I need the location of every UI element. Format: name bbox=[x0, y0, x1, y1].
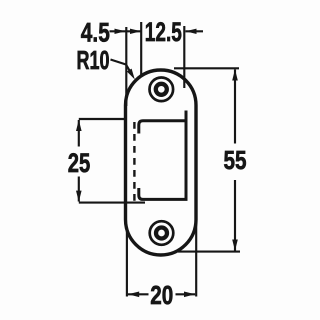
dimension 25 label bbox=[68, 148, 91, 178]
R10 leader line with arrowhead bbox=[111, 60, 135, 80]
dimension 20 left extension line bbox=[126, 228, 128, 297]
dimension 20 line with arrows bbox=[128, 292, 195, 298]
extension tick at plate left edge bbox=[125, 27, 127, 106]
radius callout R10 label bbox=[77, 47, 110, 75]
dimension 25 bottom extension line bbox=[79, 202, 145, 204]
dimension 55 top extension line bbox=[174, 67, 239, 69]
dimension 55 bottom extension line bbox=[178, 251, 240, 253]
extension line at cutout right edge bbox=[183, 26, 185, 88]
svg-text:4.5: 4.5 bbox=[81, 17, 110, 47]
dimension 12.5 label bbox=[145, 17, 182, 47]
hidden edge dashed line of cutout bbox=[133, 122, 135, 202]
dimension 55 vertical line with arrows bbox=[232, 69, 238, 250]
svg-text:R10: R10 bbox=[77, 47, 110, 75]
dimension 4.5 label bbox=[81, 17, 110, 47]
rectangular cutout (latch opening) bbox=[139, 111, 186, 200]
svg-text:25: 25 bbox=[68, 148, 91, 178]
dimension 20 right extension line bbox=[195, 220, 197, 297]
dimension 55 label bbox=[224, 145, 247, 175]
svg-text:55: 55 bbox=[224, 145, 247, 175]
bottom screw hole outer circle bbox=[150, 221, 174, 245]
extension line at cutout left edge bbox=[140, 22, 142, 76]
dimension 20 label bbox=[150, 282, 173, 310]
plate outline (stadium shaped strike plate) bbox=[126, 70, 197, 255]
bottom screw hole inner ring bbox=[156, 228, 167, 239]
dimension 12.5 right arrow bbox=[186, 29, 204, 34]
svg-text:20: 20 bbox=[150, 282, 173, 310]
svg-text:12.5: 12.5 bbox=[145, 17, 182, 47]
dimension 25 vertical line with arrows bbox=[76, 120, 82, 202]
top screw hole inner ring bbox=[156, 84, 167, 95]
dimension 4.5 line with arrows bbox=[110, 29, 142, 34]
dimension 25 top extension line bbox=[79, 118, 127, 120]
top screw hole outer circle bbox=[150, 78, 174, 102]
